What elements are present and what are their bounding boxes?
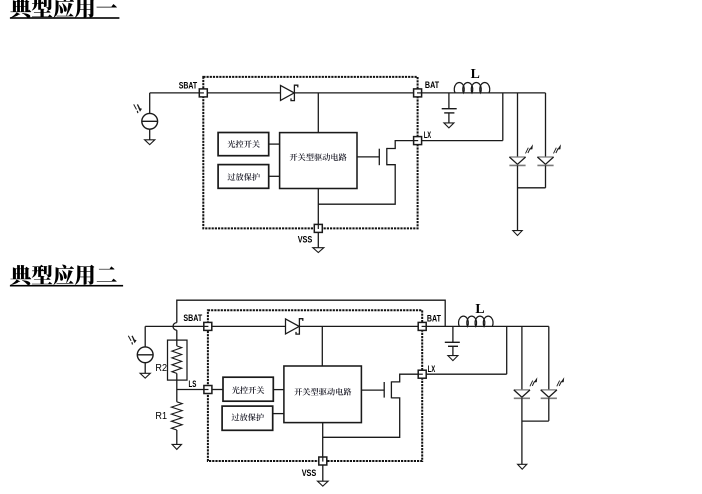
pin BAT (circuit 1): [414, 89, 422, 97]
diode D1 (Schottky): triangle: [281, 85, 295, 100]
pin VSS (circuit 1): [314, 224, 322, 232]
LED D6: triangle sides: [541, 390, 557, 397]
wire: LED D6 cathode down: [548, 398, 550, 421]
wire: LED cathodes join (c2): [522, 420, 549, 422]
solar cell PV1: bottom stem: [149, 129, 151, 140]
wire: BAT to inductor and LED rail: [422, 92, 546, 94]
svg-text:LX: LX: [424, 130, 432, 141]
wire: LED rail to LED D3 anode: [545, 93, 547, 157]
title: 典型应用一 (Typical Application 1): [10, 0, 120, 19]
wire: LED D5 cathode down to ground: [521, 398, 523, 464]
solar cell PV2: diameter electrode line: [137, 354, 153, 356]
pin LX (circuit 1): [414, 137, 422, 145]
pin LS (circuit 2): [204, 386, 212, 394]
ground below R1: [172, 444, 181, 449]
LED D3: triangle top edge: [537, 156, 553, 158]
wire: LED rail to LED D6 anode: [548, 326, 550, 390]
svg-text:SBAT: SBAT: [179, 81, 198, 92]
wire: LS pin to 光控开关: [212, 389, 223, 391]
wire: LED D3 cathode down: [545, 166, 547, 188]
wire: solar cell PV1 to SBAT pin: [150, 92, 200, 94]
svg-text:R1: R1: [155, 411, 167, 422]
wire: driver bottom to VSS pin (c2): [322, 423, 324, 457]
wire: BAT to inductor and LED rail (c2): [426, 325, 549, 327]
wire: SBAT pin to diode D1 anode: [207, 92, 280, 94]
wire: switch node down to LX line: [502, 93, 504, 141]
wire: internal rail down to driver block: [317, 93, 319, 133]
svg-text:SBAT: SBAT: [183, 313, 202, 324]
capacitor C2: bottom plate: [448, 345, 458, 347]
wire: internal rail down to driver block (c2): [321, 326, 323, 366]
wire: LED D2 cathode down to ground: [517, 166, 519, 231]
wire: LS node down to R1: [176, 390, 178, 402]
transistor Q1: channel plate: [386, 148, 388, 165]
wire: VSS pin to ground (c2): [322, 465, 324, 481]
wire: VSS pin to ground: [317, 232, 319, 247]
solar cell PV2: bottom stem: [144, 363, 146, 374]
wire: SBAT pin to diode D4 anode: [212, 325, 286, 327]
block: 光控开关 (light-control switch), circuit 2: [223, 377, 273, 401]
ground below C2: [448, 356, 458, 361]
wire: R2 bottom to LS node: [176, 373, 178, 389]
wire: driver bottom to VSS pin: [317, 189, 319, 225]
IC U1 dashed boundary (circuit 1): [203, 77, 417, 229]
pin SBAT (circuit 1): [199, 89, 207, 97]
svg-text:R2: R2: [155, 363, 167, 374]
LED D5: triangle top edge: [514, 389, 530, 391]
inductor L2 coil: [459, 316, 494, 326]
solar cell PV2: wire stem to circle: [144, 326, 146, 347]
wire: hop down into R2: [176, 330, 178, 346]
LED D2: triangle sides: [509, 157, 525, 164]
text: 过放保护 label c2: [232, 413, 264, 421]
ground at VSS (circuit 1): [313, 248, 324, 253]
svg-text:BAT: BAT: [427, 313, 441, 324]
LED D5: triangle sides: [514, 390, 530, 397]
pin SBAT (circuit 2): [204, 322, 212, 330]
wire: driver output to Q2 gate: [361, 389, 384, 391]
wire: LX pin to switch node: [422, 140, 503, 142]
text: 开关型驱动电路 label c2: [294, 388, 351, 396]
IC U2 dashed boundary (circuit 2): [208, 310, 422, 461]
wire: LX pin to switch node (c2): [426, 373, 507, 375]
ground below LEDs (circuit 2): [518, 464, 527, 469]
title: 典型应用二 (Typical Application 2): [10, 265, 123, 287]
wire: LS node to LS pin: [177, 389, 204, 391]
ground below C1: [444, 123, 454, 128]
transistor Q1 (NMOS): gate plate: [378, 149, 380, 166]
LED D2: triangle top edge: [509, 156, 525, 158]
svg-text:L: L: [475, 301, 484, 316]
LED D5: emission arrows: [530, 377, 537, 386]
svg-text:BAT: BAT: [425, 80, 439, 91]
diode D1: schottky cathode bar: [291, 85, 298, 100]
wire: 过放保护 to driver (c2): [273, 413, 284, 415]
resistor zigzag R2: [172, 346, 182, 374]
block: 开关型驱动电路 (switching driver), circuit 1: [280, 133, 357, 189]
wire: BAT node to capacitor C2: [452, 326, 454, 342]
text: 开关型驱动电路 label c1: [290, 153, 347, 161]
wire: diode D4 cathode to BAT pin: [299, 325, 418, 327]
LED D2: emission arrows: [526, 144, 533, 153]
block: 过放保护 (over-discharge protection), circuit 2: [222, 406, 273, 430]
ground at VSS (circuit 2): [318, 481, 329, 486]
ground below LEDs (circuit 1): [513, 231, 522, 236]
wire: BAT node to capacitor C1: [448, 93, 450, 108]
light arrow into PV2: [128, 336, 136, 345]
diode D4 (Schottky): triangle: [286, 319, 300, 334]
wire: Q2 source to VSS rail: [323, 398, 400, 437]
block: 过放保护 (over-discharge protection), circuit 1: [218, 165, 269, 189]
wire: switch node down to LX line (c2): [506, 326, 508, 374]
ground below PV1: [145, 140, 155, 145]
LED D5: cathode bar: [514, 397, 530, 399]
wire hop: bypass wire crosses SBAT wire: [173, 323, 177, 331]
wire: C1 to ground: [448, 113, 450, 123]
diode D4: schottky cathode bar: [296, 319, 303, 334]
capacitor C1: bottom plate: [444, 112, 454, 114]
wire: 过放保护 to driver: [269, 175, 280, 177]
solar cell PV1: diameter electrode line: [142, 120, 158, 122]
wire: R1 to ground: [176, 430, 178, 444]
wire: solar cell PV2 to SBAT pin: [145, 325, 204, 327]
LED D6: triangle top edge: [541, 389, 557, 391]
svg-text:L: L: [471, 66, 480, 81]
svg-text:LX: LX: [428, 364, 436, 375]
ground below PV2: [140, 373, 150, 378]
svg-text:VSS: VSS: [298, 234, 313, 245]
pin LX (circuit 2): [418, 370, 426, 378]
wire: C2 to ground: [452, 346, 454, 355]
capacitor C1: top plate: [442, 108, 457, 110]
wire: driver output to Q1 gate: [357, 156, 379, 158]
light arrow into PV1: [134, 104, 142, 113]
wire: battery bypass over IC to BAT node: [177, 300, 445, 326]
LED D3: triangle sides: [537, 157, 553, 164]
LED D6: cathode bar: [541, 397, 557, 399]
LED D6: emission arrows: [557, 377, 564, 386]
inductor L1 coil: [454, 83, 489, 93]
LED D2: cathode bar: [509, 164, 525, 166]
text: 过放保护 label c1: [228, 173, 260, 181]
svg-text:LS: LS: [189, 379, 197, 390]
svg-text:VSS: VSS: [302, 468, 317, 479]
wire: LED rail to LED D5 anode: [521, 326, 523, 390]
resistor R2 enclosure box: [168, 340, 188, 380]
wire: diode D1 cathode to BAT pin: [294, 92, 413, 94]
wire: LED cathodes join: [518, 187, 546, 189]
solar cell PV1: circle body: [142, 113, 158, 129]
resistor zigzag R1: [171, 402, 182, 430]
text: 光控开关 label c2: [232, 386, 264, 394]
pin VSS (circuit 2): [319, 457, 327, 465]
block: 开关型驱动电路 (switching driver), circuit 2: [284, 366, 362, 423]
wire: Q2 drain to LX pin: [391, 374, 418, 382]
transistor Q2 (NMOS): gate plate: [383, 382, 385, 398]
block: 光控开关 (light-control switch), circuit 1: [218, 133, 269, 156]
wire: Q1 source to VSS rail: [318, 165, 395, 205]
wire: LED rail to LED D2 anode: [517, 93, 519, 157]
wire: 光控开关 to driver: [269, 143, 280, 145]
LED D3: emission arrows: [554, 144, 561, 153]
solar cell PV2: circle body: [137, 347, 153, 363]
wire: 光控开关 to driver (c2): [273, 389, 284, 391]
solar cell PV1: wire stem to circle: [149, 93, 151, 114]
transistor Q2: channel plate: [390, 381, 392, 398]
text: 光控开关 label c1: [228, 140, 260, 148]
wire: Q1 drain to LX pin: [387, 141, 414, 149]
pin BAT (circuit 2): [418, 322, 426, 330]
LED D3: cathode bar: [537, 164, 553, 166]
capacitor C2: top plate: [445, 341, 460, 343]
